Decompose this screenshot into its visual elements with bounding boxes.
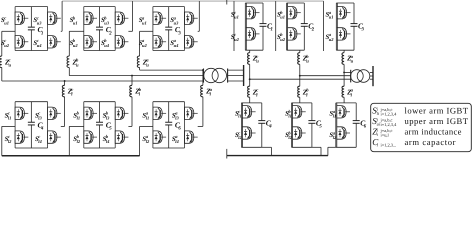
svg-text:1: 1 [41,30,43,36]
wire - SM3u bottom rail [153,50,185,52]
label S^c_l4 [35,134,43,144]
wire - T2 out c [370,78,373,80]
label S^a_u3 [170,16,179,26]
wire - lower arm to SM [64,97,66,127]
legend entry - lower arm IGBT [372,106,468,117]
capacitor C6 (left MMC) [165,122,172,125]
label C4 (right MMC) [266,119,273,130]
wire - lower coil to lower SM [343,97,345,103]
capacitor C6 wire bottom [168,125,170,148]
capacitor C5 (right MMC) [308,121,315,124]
wire - SM2u right leg [114,7,116,51]
label S^b_l2 (right) [285,130,293,140]
label S^b_u2 [70,38,79,48]
label Z^a_l [205,87,213,97]
label S^c_l2 [5,134,13,144]
label S^c_u1 [231,10,239,20]
wire - SM3u left AC tap [140,30,153,32]
svg-text:u4: u4 [174,43,180,48]
inductor Z^a_l (right MMC lower arm) [342,86,344,97]
svg-text:l1: l1 [146,115,150,120]
label S^c_u1 [1,16,9,26]
transistor Scu1 (right MMC) - IGBT cell [246,7,259,19]
svg-text:u4: u4 [37,43,43,48]
svg-text:u2: u2 [4,43,10,48]
wire - phase junction to lower coil [249,79,251,86]
label C3 (right MMC) [358,22,365,33]
svg-text:4: 4 [40,125,44,131]
wire - upper arm to phase line [139,68,141,71]
inductor Z^b_l (right MMC lower arm) [298,86,300,97]
wire - SM1u left leg [14,7,16,51]
svg-text:2: 2 [311,27,315,33]
svg-text:u2: u2 [280,37,286,42]
capacitor C5 (right MMC) wire top [311,103,313,121]
wire - uSM1 to upper coil [249,50,251,52]
svg-text:i=1,2,3,4: i=1,2,3,4 [381,111,398,116]
wire - uSM1 top rail [245,2,263,4]
svg-text:3: 3 [177,30,181,36]
capacitor C6 (right MMC) wire top [355,103,357,121]
wire - SM2l left AC tap [69,125,84,127]
wire - to DC- bus [139,126,141,155]
inductor Z^b_u (right MMC upper arm) [298,53,300,65]
transistor Sau3 - IGBT cell [185,12,198,24]
wire - uSM3 IGBT stack link [336,19,338,28]
label S^c_u2 [1,38,10,48]
wire - phase a line [140,69,204,71]
label S^a_u2 [326,32,335,42]
svg-text:lower arm IGBT: lower arm IGBT [405,106,469,116]
transistor Scu2 - IGBT cell [15,36,28,48]
legend entry - arm inductance [372,127,461,138]
capacitor C5 (left MMC) wire top [99,102,101,123]
wire - phase b line (right) [300,75,351,77]
wire - riser to DC+ bus [198,1,200,31]
wire - DC- bottom bus (right MMC) [227,155,328,157]
wire - SM2u left AC tap [69,30,84,32]
label S^c_u4 [33,38,42,48]
svg-text:u: u [256,59,259,64]
wire - lSM3 left vertical [335,103,337,147]
capacitor C4 wire bottom [261,123,263,147]
wire - SM2u left leg [83,7,85,51]
transistor Sbu4 - IGBT cell [115,36,128,48]
wire - DC+ top bus (left MMC) [62,0,324,2]
wire - SM2l left leg [83,102,85,148]
capacitor C4 (left MMC) [28,122,35,125]
wire - lower arm lead [64,81,66,85]
wire - DC+ riser leg b [275,1,277,51]
label S^c_u2 [231,32,240,42]
wire - SM1l left leg [14,102,16,148]
wire - lSM2 IGBT stack link [292,118,294,127]
wire - SM2u top rail [84,6,115,8]
node - phase a lower-arm junction [202,69,204,71]
wire - lower coil to lower SM [299,97,301,103]
transistor Sal2 - IGBT cell [153,131,166,143]
wire - upper arm lead [139,31,141,56]
wire - uSM2 bottom rail [287,49,305,51]
wire - phase a line (right) [344,71,351,73]
wire - SM1l right AC tap [61,125,65,127]
wire - uSM2 to upper coil [299,50,301,52]
svg-text:u1: u1 [280,15,285,20]
wire - lower coil to lower SM [249,97,251,103]
wire - lSM1 to DC- bus [262,147,272,155]
wire - phase junction to lower coil [343,72,345,86]
wire - lSM3 bottom rail [336,146,356,148]
wire - uSM3 bottom rail [336,49,354,51]
transformer T1 - primary bar [203,69,205,83]
transistor Sbu3 - IGBT cell [115,12,128,24]
capacitor C4 (right MMC) [258,121,265,124]
wire - SM1u left AC tap [2,30,15,32]
label S^b_u4 [101,38,110,48]
capacitor C1 (left MMC) [28,27,35,30]
wire - SM2l bottom rail [84,147,115,149]
label Z^a_l (right) [346,88,354,98]
transistor Sau1 - IGBT cell [153,12,166,24]
capacitor C3 (right MMC) [351,24,358,27]
node - phase b lower-arm junction [131,75,133,77]
wire - uSM2 IGBT stack link [287,19,289,28]
label C2 (right MMC) [308,22,315,33]
wire - lSM3 top rail [336,102,356,104]
svg-text:l1: l1 [288,114,292,119]
wire - T1 secondary line b [228,75,244,77]
transistor Sal1 - IGBT cell [153,107,166,119]
capacitor C2 (left MMC) [96,27,103,30]
node - AC grid bar (right) [372,66,374,86]
wire - riser to DC+ bus [132,1,134,31]
wire - SM2u right AC tap [128,30,132,32]
wire - lSM3 stack top lead [336,103,338,106]
svg-text:u: u [146,62,149,67]
svg-text:u4: u4 [104,43,110,48]
wire - lower arm to SM [131,97,133,127]
capacitor C2 (right MMC) [301,24,308,27]
label C5 [106,120,113,131]
wire - lSM3 stack bottom lead [336,139,338,147]
node - AC grid bar (left) [243,65,245,86]
wire - lSM1 stack bottom lead [241,139,243,147]
node - phase c lower-arm junction [64,80,66,82]
transistor Sbl1 (right MMC) - IGBT cell [293,106,306,118]
svg-text:u1: u1 [73,20,78,25]
transistor Scu3 - IGBT cell [48,12,61,24]
svg-text:u2: u2 [73,43,79,48]
label S^b_l1 [73,111,80,121]
transistor Sbl3 - IGBT cell [115,107,128,119]
label Z^b_u [72,58,80,68]
svg-text:arm inductance: arm inductance [405,127,462,137]
transistor Sal4 - IGBT cell [185,131,198,143]
svg-text:l1: l1 [8,115,12,120]
label S^a_u2 [139,38,148,48]
label Z^a_u (right) [346,54,354,64]
wire - uSM1 bottom rail [245,49,263,51]
wire - upper coil to phase junction [249,64,251,79]
wire - lSM3 to DC- bus [328,147,336,155]
legend entry - arm capacitor [372,137,455,147]
inductor Z^a_u (left MMC upper arm) [137,56,139,68]
label Z^c_u (right) [252,54,260,64]
capacitor C3 wire bottom [353,26,355,50]
label S^b_l1 (right) [285,109,292,119]
wire - SM3l right AC tap [198,125,203,127]
transformer T2 - winding circle 1 [351,70,364,83]
svg-text:u2: u2 [329,37,335,42]
wire - phase junction to lower coil [299,76,301,87]
wire - SM3l bottom rail [153,147,185,149]
wire - lSM1 left vertical [240,103,242,147]
transformer T1 - secondary bar [227,69,229,83]
wire - to DC- bus [68,126,70,155]
legend box [371,103,472,151]
capacitor C3 (left MMC) branch wire top [168,7,170,28]
wire - lSM2 stack top lead [292,103,294,106]
label S^b_l3 [103,111,111,121]
label S^a_u4 [170,38,179,48]
wire - lSM3 IGBT stack link [336,118,338,127]
transistor Scl3 - IGBT cell [48,107,61,119]
capacitor C4 (left MMC) wire top [30,102,32,123]
svg-text:u: u [9,62,12,67]
svg-text:u: u [351,59,354,64]
label C1 (right MMC) [267,22,273,33]
node - phase c junction (right) [249,78,251,80]
svg-text:u: u [76,62,79,67]
wire - uSM1 stack top lead [245,3,247,7]
legend entry - upper arm IGBT [372,116,468,127]
label S^a_l2 (right) [329,130,337,140]
wire - upper coil to phase junction [299,64,301,75]
label S^c_l1 [5,111,12,121]
label C2 [106,25,113,36]
node - phase a junction (right) [343,71,345,73]
svg-text:i=1,2,3...: i=1,2,3... [381,142,397,147]
wire - DC- bottom bus (left MMC) [2,155,140,157]
label Z^c_u [4,58,12,68]
svg-text:2: 2 [108,30,112,36]
inductor Z^c_u (left MMC upper arm) [0,56,2,68]
transistor Sau2 - IGBT cell [153,36,166,48]
capacitor C1 wire bottom [262,26,264,50]
wire - SM3u right AC tap [198,30,200,32]
label C1 [38,25,44,36]
wire - upper coil to phase junction [343,64,345,72]
svg-text:3: 3 [361,27,365,33]
svg-text:l1: l1 [77,115,81,120]
transistor Scl4 - IGBT cell [48,131,61,143]
wire - uSM1 stack bottom lead [245,40,247,50]
transistor Scl2 - IGBT cell [15,131,28,143]
wire - lSM2 stack bottom lead [292,139,294,147]
wire - SM2l top rail [84,101,115,103]
label S^b_u2 [277,32,286,42]
node - DC+ terminal stub [226,0,228,5]
capacitor C4 (right MMC) wire top [261,103,263,121]
transformer T1 - winding circle 2 [212,68,226,82]
svg-text:l1: l1 [333,114,337,119]
wire - SM1u right AC tap [61,30,62,32]
wire - SM2u bottom rail [84,50,115,52]
label C3 [175,25,182,36]
inductor Z^c_u (right MMC upper arm) [248,53,250,65]
label S^b_l4 [103,134,111,144]
wire - SM1l bottom rail [15,147,48,149]
wire - SM1l top rail [15,101,48,103]
wire - lSM1 top rail [241,102,261,104]
wire - uSM3 left vertical [335,3,337,50]
svg-text:u1: u1 [4,20,9,25]
label S^a_u1 [326,10,334,20]
capacitor C5 wire bottom [311,123,313,147]
transistor Scl1 - IGBT cell [15,107,28,119]
transformer T2 - winding circle 2 [357,70,370,83]
wire - SM1u bottom rail [15,50,48,52]
wire - uSM1 IGBT stack link [245,19,247,28]
wire - SM1l left AC tap [2,125,15,127]
node - phase b junction (right) [299,75,301,77]
transistor Sbl2 (right MMC) - IGBT cell [293,127,306,139]
transistor Sal1 (right MMC) - IGBT cell [337,106,350,118]
wire - lower arm to SM [202,97,204,127]
capacitor C3 wire bottom [168,30,170,51]
svg-text:u2: u2 [234,37,240,42]
wire - lower arm lead [131,76,133,86]
label S^c_l3 [35,111,43,121]
label C6 (right MMC) [360,119,367,130]
capacitor C1 wire bottom [30,30,32,51]
transformer T1 - winding circle 1 [204,68,218,82]
transistor Scu1 - IGBT cell [15,12,28,24]
transistor Scu2 (right MMC) - IGBT cell [246,28,259,40]
node - DC- terminal stub (right) [226,149,228,159]
label Z^b_l [134,87,142,97]
wire - SM3u top rail [153,6,185,8]
capacitor C2 (left MMC) branch wire top [99,7,101,28]
capacitor C1 (left MMC) branch wire top [30,7,32,28]
svg-text:u2: u2 [142,43,148,48]
svg-text:arm capactor: arm capactor [405,137,456,147]
label S^b_u1 [277,10,285,20]
label S^c_l2 (right) [235,130,243,140]
wire - DC+ riser leg a [323,1,325,51]
label C6 [175,120,182,131]
wire - uSM2 left vertical [286,3,288,50]
capacitor C2 wire bottom [99,30,101,51]
wire - upper arm to phase line [1,68,3,82]
svg-text:upper arm IGBT: upper arm IGBT [405,116,469,126]
label S^c_u3 [33,16,42,26]
inductor Z^c_l (left MMC lower arm) [62,85,64,97]
transistor Sbl1 - IGBT cell [84,107,97,119]
inductor Z^a_u (right MMC upper arm) [342,53,344,65]
transistor Sau4 - IGBT cell [185,36,198,48]
label S^c_l1 (right) [235,109,242,119]
wire - to DC- bus [1,126,3,155]
svg-text:l1: l1 [238,114,242,119]
wire - lSM1 stack top lead [241,103,243,106]
transistor Scl1 (right MMC) - IGBT cell [242,106,255,118]
wire - SM3l top rail [153,101,185,103]
wire - uSM3 to upper coil [343,50,345,52]
wire - phase c line (right) [250,78,351,80]
wire - SM3l right leg [184,102,186,148]
transistor Sau2 (right MMC) - IGBT cell [337,28,350,40]
transistor Sal2 (right MMC) - IGBT cell [337,127,350,139]
label S^a_l1 (right) [329,109,336,119]
capacitor C3 (right MMC) wire top [353,3,355,24]
inductor Z^c_l (right MMC lower arm) [248,86,250,97]
capacitor C1 (right MMC) [260,24,267,27]
label S^a_l2 [142,134,150,144]
wire - SM3l left leg [152,102,154,148]
transistor Scu4 - IGBT cell [48,36,61,48]
wire - T2 out a [370,71,373,73]
wire - phase b line [69,75,203,77]
transformer T2 - primary bar [350,70,352,83]
wire - phase c line [2,80,204,82]
svg-text:i=u,l: i=u,l [381,132,390,137]
wire - lSM2 top rail [292,102,312,104]
wire - uSM1 left vertical [244,3,246,50]
wire - upper arm lead [68,31,70,56]
svg-text:u1: u1 [234,15,239,20]
capacitor C3 (left MMC) [165,27,172,30]
wire - uSM3 stack bottom lead [336,40,338,50]
label Z^b_u (right) [302,54,310,64]
wire - SM2l right leg [114,102,116,148]
label C4 [38,120,45,131]
svg-text:i=1,2,3,4: i=1,2,3,4 [381,122,398,127]
label S^b_u1 [70,16,78,26]
wire - SM3u left leg [152,7,154,51]
wire - uSM3 stack top lead [336,3,338,7]
capacitor C5 (left MMC) [96,122,103,125]
capacitor C6 (left MMC) wire top [168,102,170,123]
wire - uSM2 stack top lead [287,3,289,7]
wire - uSM2 top rail [287,2,305,4]
wire - T1 secondary line c [228,80,244,82]
transistor Sbl4 - IGBT cell [115,131,128,143]
wire - lower arm lead [202,70,204,85]
wire - SM3l left AC tap [140,125,153,127]
label Z^c_l [67,87,74,97]
label S^b_u3 [101,16,110,26]
transistor Sbu1 (right MMC) - IGBT cell [288,7,301,19]
wire - riser to DC+ bus [61,1,63,31]
capacitor C2 (right MMC) wire top [303,3,305,24]
capacitor C4 wire bottom [30,125,32,148]
wire - SM2l right AC tap [128,125,132,127]
transistor Sbu2 (right MMC) - IGBT cell [288,28,301,40]
wire - lSM2 left vertical [291,103,293,147]
wire - uSM2 stack bottom lead [287,40,289,50]
wire - T1 secondary line a [228,69,244,71]
label S^a_u1 [139,16,147,26]
wire - SM1u right leg [47,7,49,51]
capacitor C6 (right MMC) [353,121,360,124]
label S^a_l1 [142,111,149,121]
inductor Z^b_u (left MMC upper arm) [67,56,69,68]
capacitor C5 wire bottom [99,125,101,148]
capacitor C1 (right MMC) wire top [262,3,264,24]
label C5 (right MMC) [316,119,323,130]
inductor Z^b_l (left MMC lower arm) [130,85,132,97]
